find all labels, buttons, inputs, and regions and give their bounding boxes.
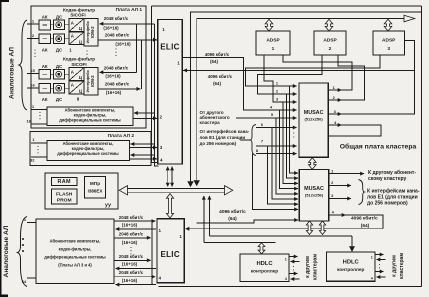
subscriber set АК 1 — [39, 20, 51, 30]
wire line 64 bottom — [27, 277, 36, 279]
wire MUSAC2 rpin4 — [329, 214, 346, 216]
svg-text:64: 64 — [22, 279, 27, 284]
wire MUSAC1 rpin3 stub — [328, 113, 341, 115]
svg-text:до 256 номеров): до 256 номеров) — [367, 201, 408, 207]
svg-text:к другим: к другим — [392, 255, 398, 277]
svg-text:1: 1 — [272, 46, 275, 52]
svg-text:4096 кбит/с: 4096 кбит/с — [205, 52, 230, 57]
top bus 4096 to ADSPs — [197, 18, 404, 20]
wire tap7 to MUSAC2 — [268, 146, 299, 204]
svg-text:2048 кбит/с: 2048 кбит/с — [105, 81, 130, 86]
svg-text:ДС: ДС — [56, 97, 63, 102]
board box Плата АЛ 2 — [30, 132, 151, 166]
box subscriber sets boards 3-4 — [36, 219, 114, 284]
dots lower box inputs — [39, 112, 40, 113]
svg-text:(16+16): (16+16) — [115, 42, 131, 47]
wire ELIC2 to boards34 a — [116, 228, 157, 230]
svg-text:ADSP: ADSP — [266, 38, 280, 44]
wire subscriber line 1 — [27, 23, 39, 25]
link arrow MUSAC1-MUSAC2 — [309, 158, 317, 170]
wire to board2 box a — [131, 143, 155, 145]
svg-text:кодек-фильтры,: кодек-фильтры, — [59, 246, 92, 251]
svg-text:(512х256): (512х256) — [305, 193, 324, 198]
svg-text:кластерам: кластерам — [399, 253, 405, 279]
wire line 1 board2 — [31, 142, 47, 144]
wire line 1 lower — [31, 109, 47, 111]
wire HDLC1 out b — [289, 273, 298, 275]
wire tap5 to MUSAC2 — [276, 118, 298, 194]
svg-text:К другому абонент-: К другому абонент- — [368, 169, 416, 176]
wire boards34 to ELIC2 c — [114, 259, 151, 261]
svg-text:(64): (64) — [213, 81, 221, 86]
wire АК16-ДС16 — [51, 87, 54, 89]
svg-text:(Платы АЛ 3 и 4): (Платы АЛ 3 и 4) — [58, 262, 92, 267]
svg-text:ELIC: ELIC — [160, 42, 179, 51]
link ELIC1-bus a — [167, 167, 169, 187]
DSP box ADSP 3 — [373, 31, 405, 55]
dots below IOM box 1 — [86, 50, 87, 51]
link bus-ELIC2 — [166, 194, 173, 218]
svg-text:2048 кбит/с: 2048 кбит/с — [119, 231, 144, 236]
svg-text:(64): (64) — [361, 223, 370, 229]
svg-text:2048 кбит/с: 2048 кбит/с — [119, 270, 144, 275]
A/D converter box 1 — [69, 19, 84, 32]
cluster box right edge — [421, 6, 423, 287]
wire tap8 to MUSAC2 — [252, 154, 298, 210]
svg-text:АК: АК — [42, 64, 48, 69]
wire boards34 to ELIC2 a — [114, 220, 155, 222]
svg-text:скому кластеру: скому кластеру — [368, 176, 407, 182]
box subscriber sets board2 — [47, 141, 130, 161]
svg-text:MUSAC: MUSAC — [304, 186, 324, 192]
wire tap3 to MUSAC2 — [283, 102, 298, 183]
wire tap1 to MUSAC2 — [290, 86, 298, 173]
wire HDLC1 feed — [204, 242, 275, 244]
svg-text:Плата АЛ 1: Плата АЛ 1 — [116, 7, 143, 13]
dots MUSAC1 left lower — [293, 132, 294, 133]
svg-text:PROM: PROM — [57, 197, 72, 203]
wire collector b — [155, 24, 159, 166]
svg-text:16: 16 — [27, 118, 32, 123]
wire lower box to ELIC pin2 — [133, 117, 157, 119]
brace analog lines bottom — [18, 217, 28, 287]
svg-text:Аналоговые АЛ: Аналоговые АЛ — [9, 47, 16, 99]
svg-text:16: 16 — [30, 83, 35, 88]
FLASH PROM box — [52, 189, 78, 204]
svg-text:АК: АК — [42, 48, 48, 53]
svg-text:2048 кбит/с: 2048 кбит/с — [104, 16, 129, 21]
wire MUSAC1 rpin2 stub — [328, 99, 341, 101]
wire IOM1 to ELIC — [98, 39, 157, 41]
svg-text:2048 кбит/с: 2048 кбит/с — [119, 215, 144, 220]
wire HDLC2 out b — [375, 271, 384, 273]
HDLC controller 2 — [327, 252, 376, 281]
hybrid ДС 15 — [54, 70, 65, 80]
svg-text:Кодек-фильтр: Кодек-фильтр — [63, 56, 95, 62]
svg-text:3: 3 — [387, 46, 390, 52]
svg-text:АК: АК — [42, 14, 48, 19]
svg-text:(16+16): (16+16) — [122, 262, 138, 267]
wire ADSP3 out to MUSAC1 pin1 — [245, 55, 380, 86]
wire ДС16-АЦ16 — [65, 87, 70, 89]
wire АК1-ДС1 — [51, 24, 54, 26]
wire 4096 in to ELIC1 — [183, 69, 414, 71]
ELIC U1 (top) — [158, 20, 183, 165]
svg-text:2048 кбит/с: 2048 кбит/с — [104, 66, 129, 71]
wire MUSAC2 rpin3 — [329, 198, 351, 200]
svg-text:(16+16): (16+16) — [105, 74, 121, 79]
wire E1 b to MUSAC1 pin7 — [256, 145, 297, 147]
wire board2 to ELIC pin3 — [130, 147, 157, 149]
wire АК2-ДС2 — [51, 38, 54, 40]
wire ADSP2 out to MUSAC1 pin2 — [258, 55, 322, 94]
wire subscriber line 15 — [27, 73, 39, 75]
svg-text:ДС: ДС — [56, 64, 63, 69]
hybrid ДС 1 — [54, 20, 65, 30]
wire E1 text to brace — [240, 139, 251, 141]
svg-text:От интерфейсов кана-: От интерфейсов кана- — [200, 128, 250, 134]
svg-text:Аналоговые АЛ: Аналоговые АЛ — [3, 225, 10, 277]
svg-text:дифференциальные системы: дифференциальные системы — [59, 118, 121, 123]
wire MUSAC1 rpin2 to ADSP2 — [338, 55, 365, 100]
wire ADSP1 out to MUSAC1 pin3 — [264, 55, 297, 102]
svg-text:2048 кбит/с: 2048 кбит/с — [119, 254, 144, 259]
subscriber set АК 15 — [39, 70, 51, 80]
wire MUSAC1 rpin1 stub — [328, 89, 341, 91]
svg-text:(512х256): (512х256) — [304, 117, 323, 122]
wire bus to HDLC feed b — [208, 196, 210, 236]
svg-text:кластерам: кластерам — [313, 254, 319, 280]
link MUSAC2-HDLC bus a — [306, 221, 312, 235]
brace to E1 interfaces — [359, 180, 365, 205]
wire E1 a to MUSAC1 pin6 — [256, 127, 297, 129]
wire MUSAC2 to other cluster — [329, 173, 364, 175]
wire MUSAC1 rpin3 to ADSP3 — [342, 41, 415, 114]
wire АК15-ДС15 — [51, 73, 54, 75]
svg-text:кластера: кластера — [200, 120, 221, 125]
svg-text:ДС: ДС — [56, 48, 63, 53]
brace analog lines top — [19, 20, 27, 110]
board box Плата АЛ 1 — [31, 6, 146, 128]
wire rpin4 wrap down — [346, 215, 384, 229]
wire HDLC2 in b — [377, 276, 386, 278]
wire line 16 lower — [31, 123, 47, 125]
svg-text:1: 1 — [285, 257, 287, 261]
wire MUSAC1 rpin1 to ADSP1 — [283, 55, 352, 90]
wire MUSAC1 rpin4 stub — [328, 124, 341, 126]
wire HDLC2 in a — [377, 259, 386, 261]
svg-text:контроллер: контроллер — [251, 269, 278, 274]
scan border artifact left edge — [0, 0, 2, 297]
wire MUSAC1 rpin4 loop — [328, 125, 381, 136]
wire to ELIC2 right pin1 — [186, 228, 384, 230]
svg-text:4096 кбит/с: 4096 кбит/с — [219, 208, 246, 215]
dots below AK column 1 — [34, 49, 35, 50]
svg-text:АК: АК — [42, 97, 48, 102]
svg-text:к другим: к другим — [305, 256, 311, 278]
svg-text:ADSP: ADSP — [323, 38, 337, 44]
svg-text:15: 15 — [30, 68, 35, 73]
RAM box — [52, 178, 78, 186]
wire HDLC1 out a — [289, 256, 298, 258]
svg-text:RAM: RAM — [57, 179, 71, 185]
svg-text:К интерфейсам кана-: К интерфейсам кана- — [367, 188, 420, 195]
HDLC controller 1 — [240, 254, 289, 282]
wire IOM2 to join riser — [98, 88, 140, 90]
main bus big arrow — [128, 187, 225, 189]
link ELIC1-bus b — [171, 167, 173, 187]
wire riser from main bus to top bus — [196, 19, 198, 185]
IOM-2 interface box 2 — [84, 68, 98, 96]
wire bus to HDLC feed a — [203, 196, 205, 243]
DSP box ADSP 1 — [256, 31, 290, 55]
bus link arrow ADSP1 — [265, 19, 273, 31]
wire ELIC to IOM1 — [100, 23, 155, 25]
dots right of group 1 — [115, 48, 116, 49]
wire E1 c to MUSAC1 pin8 — [256, 153, 297, 155]
svg-text:4096 кбит/с: 4096 кбит/с — [208, 74, 233, 79]
svg-text:7: 7 — [261, 139, 263, 144]
A/D converter box 2 — [69, 32, 84, 45]
svg-text:дифференциальные системы: дифференциальные системы — [57, 151, 119, 156]
dots MUSAC2 left inputs — [294, 199, 295, 200]
svg-text:HDLC: HDLC — [343, 260, 360, 266]
dots HDLC1 links — [293, 266, 294, 267]
svg-text:ADSP: ADSP — [382, 38, 396, 44]
wire ELIC1 out 4096 to MUSAC1 pin4 — [182, 58, 296, 111]
bus link arrow ADSP2 — [325, 19, 333, 31]
bus link arrow ADSP3 — [384, 19, 392, 31]
dots bottom 2048 group — [130, 247, 131, 248]
A/D converter box 3 — [69, 68, 84, 81]
svg-text:32: 32 — [30, 157, 35, 162]
svg-text:МПр: МПр — [90, 181, 100, 186]
IOM-2 interface box 1 — [84, 19, 98, 47]
cluster board box Общая плата кластера — [191, 12, 422, 185]
wire tap6 to MUSAC2 — [272, 128, 298, 200]
wire HDLC2 feed — [209, 235, 352, 237]
svg-text:Общая плата кластера: Общая плата кластера — [340, 142, 417, 150]
wire boards34 to ELIC2 d — [114, 276, 155, 278]
wire ELIC to IOM2 — [100, 71, 137, 73]
svg-text:2048 кбит/с: 2048 кбит/с — [105, 32, 130, 37]
switch MUSAC U3 (512x256) top — [299, 83, 328, 157]
wire ДС1-АЦ1 — [65, 24, 70, 26]
svg-text:(16+16): (16+16) — [122, 278, 138, 283]
microprocessor МПр i386EX box — [85, 177, 106, 199]
svg-text:4096 кбит/с: 4096 кбит/с — [351, 215, 378, 222]
dots bottom box inputs — [22, 238, 24, 240]
control unit box УУ — [45, 173, 118, 209]
A/D converter box 4 — [69, 81, 84, 94]
svg-text:(16+16): (16+16) — [122, 240, 138, 245]
wire riser join to ELIC input — [141, 40, 143, 89]
link arrow to HDLC1 — [258, 243, 265, 254]
wire collector bottom group — [151, 221, 153, 285]
svg-text:контроллер: контроллер — [337, 267, 364, 272]
brace E1 group — [250, 125, 256, 156]
svg-text:2: 2 — [329, 46, 332, 52]
svg-text:ДС: ДС — [56, 14, 63, 19]
wire MUSAC2 rpin2 — [329, 185, 351, 187]
wire HDLC1 in b — [291, 278, 300, 280]
svg-text:УУ: УУ — [105, 203, 112, 209]
wire branch drop to IOM2 — [136, 24, 138, 73]
wire down to HDLC2 — [351, 236, 353, 248]
hybrid ДС 16 — [54, 84, 65, 94]
wire collector a to ELIC bottom — [152, 6, 158, 163]
svg-text:SICOFI: SICOFI — [70, 12, 85, 17]
wire ДС2-АЦ2 — [65, 38, 70, 40]
wire board2 to ELIC pin4 — [130, 158, 157, 160]
svg-text:FLASH: FLASH — [56, 191, 73, 197]
wire bus to MUSAC2 lower input — [197, 220, 298, 223]
wire to board2 box b — [131, 154, 155, 156]
hybrid ДС 2 — [54, 34, 65, 44]
ELIC U2 (bottom) — [157, 219, 184, 283]
cluster box bottom edge — [158, 286, 421, 288]
DSP box ADSP 2 — [314, 31, 346, 55]
svg-text:1: 1 — [371, 255, 373, 259]
wire ELIC2 to boards34 c — [116, 284, 157, 286]
wire ELIC2 to boards34 b — [116, 268, 157, 270]
svg-text:IOM-2: IOM-2 — [90, 75, 95, 87]
dots HDLC2 links — [379, 264, 380, 265]
wire line 1 bottom — [27, 222, 36, 224]
box subscriber sets board1 lower — [47, 107, 133, 126]
wire to lower box — [134, 112, 155, 114]
link MUSAC2-HDLC bus b — [319, 221, 325, 235]
svg-text:до 256 номеров): до 256 номеров) — [200, 141, 237, 146]
svg-text:Кодек-фильтр: Кодек-фильтр — [63, 6, 95, 12]
svg-text:(16+16): (16+16) — [122, 223, 138, 228]
svg-text:(64): (64) — [228, 216, 237, 222]
wire boards34 to ELIC2 b — [114, 237, 151, 239]
svg-text:(16+16): (16+16) — [106, 90, 122, 95]
wire subscriber line 2 — [27, 38, 39, 40]
wire tap2 to MUSAC2 — [286, 94, 298, 178]
subscriber set АК 16 — [39, 84, 51, 94]
svg-text:Абонентские комплекты,: Абонентские комплекты, — [50, 238, 101, 243]
wire HDLC1 in a — [291, 261, 300, 263]
svg-text:i386EX: i386EX — [88, 189, 103, 194]
wire HDLC2 out a — [375, 254, 384, 256]
svg-text:(64): (64) — [210, 59, 218, 64]
subscriber set АК 2 — [39, 34, 51, 44]
wire line 32 board2 — [31, 156, 47, 158]
switch MUSAC U4 (512x256) bottom — [299, 170, 328, 222]
svg-text:Плата АЛ 2: Плата АЛ 2 — [108, 133, 135, 139]
svg-text:дифференциальные системы: дифференциальные системы — [44, 254, 106, 259]
svg-text:HDLC: HDLC — [256, 261, 273, 267]
wire ДС15-АЦ15 — [65, 73, 70, 75]
wire subscriber line 16 — [27, 87, 39, 89]
wire outer wrap top — [152, 5, 422, 7]
svg-text:лов Е1 (для станции: лов Е1 (для станции — [200, 135, 246, 140]
svg-text:IOM-2: IOM-2 — [90, 26, 95, 38]
svg-text:SICOFI: SICOFI — [71, 62, 86, 67]
svg-text:MUSAC: MUSAC — [304, 110, 324, 116]
svg-text:(16+16): (16+16) — [103, 25, 119, 30]
dots board2 inputs — [37, 146, 38, 147]
svg-text:ELIC: ELIC — [160, 250, 179, 259]
wire other cluster to MUSAC1 pin5 — [236, 117, 297, 119]
wire tap4 to MUSAC2 — [280, 110, 299, 189]
